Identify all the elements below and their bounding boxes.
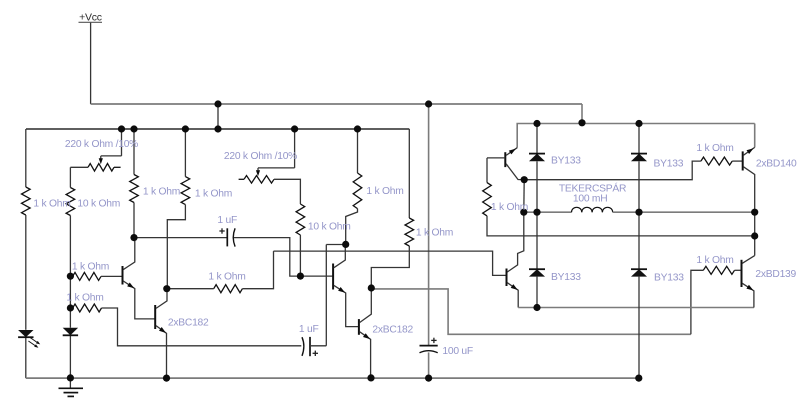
svg-text:220 k Ohm /10%: 220 k Ohm /10% [65,139,138,150]
svg-text:1 k Ohm: 1 k Ohm [416,228,453,239]
svg-text:1 k Ohm: 1 k Ohm [208,272,245,283]
svg-text:1 k Ohm: 1 k Ohm [143,187,180,198]
svg-text:1 k Ohm: 1 k Ohm [72,262,109,273]
svg-text:1 k Ohm: 1 k Ohm [33,199,70,210]
svg-text:BY133: BY133 [551,272,581,283]
svg-text:100 mH: 100 mH [573,194,608,205]
svg-text:BY133: BY133 [654,159,684,170]
svg-text:BY133: BY133 [654,272,684,283]
svg-text:1 uF: 1 uF [217,215,237,226]
svg-text:100 uF: 100 uF [442,346,473,357]
svg-text:BY133: BY133 [551,156,581,167]
svg-text:10 k Ohm: 10 k Ohm [308,222,351,233]
svg-text:1 k Ohm: 1 k Ohm [366,186,403,197]
svg-text:1 k Ohm: 1 k Ohm [696,143,733,154]
svg-text:2xBC182: 2xBC182 [372,324,413,335]
svg-text:2xBD139: 2xBD139 [755,269,796,280]
svg-text:1 k Ohm: 1 k Ohm [66,293,103,304]
svg-text:10 k Ohm: 10 k Ohm [77,199,120,210]
svg-text:1 k Ohm: 1 k Ohm [696,255,733,266]
svg-text:220 k Ohm /10%: 220 k Ohm /10% [224,151,297,162]
svg-text:1 k Ohm: 1 k Ohm [195,188,232,199]
svg-text:2xBD140: 2xBD140 [756,158,797,169]
svg-text:1 k Ohm: 1 k Ohm [491,202,528,213]
svg-text:1 uF: 1 uF [299,324,319,335]
svg-text:2xBC182: 2xBC182 [168,318,209,329]
svg-text:TEKERCSPÁR: TEKERCSPÁR [559,181,626,194]
